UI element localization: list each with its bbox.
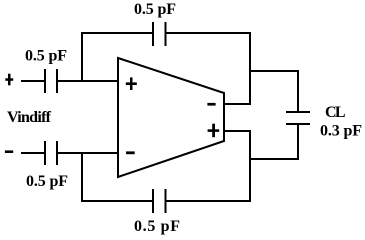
op-amp U1 fully differential body bbox=[118, 58, 224, 177]
capacitor CL 0.3 pF bbox=[286, 112, 310, 124]
svg-text:0.5 pF: 0.5 pF bbox=[26, 173, 68, 190]
capacitor C1 0.5 pF (top input) bbox=[45, 69, 57, 93]
wire positive output bbox=[223, 130, 251, 132]
wire CL top branch horizontal bbox=[249, 70, 299, 72]
wire Vin- to C3 bbox=[21, 152, 45, 154]
capacitor C4 0.5 pF (bottom feedback) bbox=[153, 189, 166, 213]
wire top feedback horizontal left bbox=[81, 32, 153, 34]
svg-text:0.5 pF: 0.5 pF bbox=[25, 48, 67, 65]
terminal Vin+ plus sign bbox=[5, 74, 13, 86]
wire C3 to op-amp inverting input bbox=[57, 152, 118, 154]
wire Vin+ to C1 bbox=[21, 80, 45, 82]
wire CL bottom branch vertical bbox=[297, 124, 299, 160]
capacitor C3 0.5 pF (bottom input) bbox=[45, 141, 57, 165]
wire CL top branch vertical bbox=[297, 70, 299, 112]
wire negative output bbox=[223, 103, 251, 105]
svg-text:0.5 pF: 0.5 pF bbox=[134, 218, 180, 235]
terminal Vin- minus sign bbox=[5, 150, 13, 153]
wire bottom feedback horizontal left bbox=[81, 200, 153, 202]
wire CL bottom branch horizontal bbox=[249, 158, 299, 160]
svg-text:CL: CL bbox=[325, 104, 346, 121]
svg-text:0.5 pF: 0.5 pF bbox=[134, 1, 176, 18]
wire top feedback horizontal right bbox=[166, 32, 251, 34]
svg-text:0.3 pF: 0.3 pF bbox=[320, 123, 362, 140]
wire bottom feedback vertical up to output node bbox=[249, 130, 251, 202]
pin inverting input minus sign bbox=[126, 151, 135, 154]
pin negative output minus sign bbox=[207, 103, 215, 106]
wire bottom feedback horizontal right bbox=[166, 200, 251, 202]
wire C1 to op-amp noninverting input bbox=[57, 80, 118, 82]
pin noninverting input plus sign bbox=[126, 77, 137, 90]
pin positive output plus sign bbox=[208, 124, 220, 138]
wire top feedback vertical down to output node bbox=[249, 32, 251, 105]
svg-text:Vindiff: Vindiff bbox=[7, 109, 52, 126]
wire bottom feedback tap vertical bbox=[81, 152, 83, 202]
wire top feedback tap vertical bbox=[81, 33, 83, 82]
capacitor C2 0.5 pF (top feedback) bbox=[153, 22, 166, 46]
